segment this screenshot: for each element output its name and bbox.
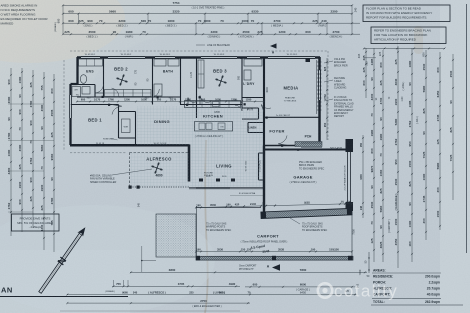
- carport dim row bottom: [195, 247, 353, 252]
- left dim connectors: [8, 104, 54, 212]
- room label BED 1: [88, 118, 102, 123]
- wir shelves: [122, 119, 131, 133]
- room label PTY: [247, 108, 254, 112]
- left dim col 3: [29, 70, 34, 228]
- ceiling ht label: [195, 134, 224, 138]
- brick pier note: [324, 58, 348, 67]
- room label PCH: [305, 135, 312, 139]
- door jambs: [102, 57, 300, 151]
- section marker A bottom: [239, 264, 280, 271]
- wall bed3 sides: [197, 58, 243, 108]
- dim col foyer right: [323, 58, 328, 140]
- bottom row 2: [66, 290, 357, 296]
- wall alfresco-living: [188, 145, 191, 182]
- storage: [259, 153, 265, 180]
- carport roof note: [241, 240, 288, 243]
- porch slab: [295, 142, 322, 147]
- dimension row 5660-3320-9330: [62, 7, 358, 15]
- wall top exterior: [77, 58, 320, 63]
- ens bath tub: [80, 75, 86, 84]
- wall labels extra: [96, 143, 247, 207]
- door ldry: [235, 104, 242, 111]
- dimension row lower widths: [62, 30, 360, 39]
- door bath: [152, 89, 160, 97]
- wall left exterior: [71, 57, 78, 145]
- door bed3: [200, 96, 209, 105]
- eave outline dashed: [64, 51, 328, 153]
- room label BATH: [163, 70, 174, 74]
- wall garage right lift door: [343, 152, 350, 203]
- walls pantry: [242, 108, 259, 119]
- wall kitchen left nib: [196, 105, 198, 119]
- wall ens wc and bed2 bottom: [77, 85, 152, 98]
- defs: [0, 0, 1, 1]
- fan alfresco: [151, 162, 163, 174]
- room label MEDIA: [284, 86, 299, 91]
- room label GARAGE: [293, 175, 312, 180]
- wall bath sides: [153, 58, 181, 105]
- room label ALFRESCO: [146, 157, 172, 162]
- right dim col 2: [370, 48, 375, 262]
- bottom row 1: [112, 280, 240, 287]
- right dim col 5: [408, 48, 413, 262]
- room label FOYER: [269, 129, 284, 134]
- dimension row room widths: [62, 19, 360, 28]
- path slab stipple: [156, 214, 196, 257]
- dimension risers: [54, 5, 352, 34]
- insulation note: [324, 96, 354, 118]
- garage right vdim: [360, 135, 364, 218]
- line of bulkhead note: [196, 44, 230, 47]
- right dim col 1: [362, 48, 367, 98]
- porch steps: [301, 143, 322, 148]
- dimension row 7754: [62, 1, 353, 10]
- watermark cotality: [318, 282, 398, 301]
- note box engineers bracing plan: [371, 27, 446, 44]
- interior rotated dims: [135, 69, 270, 92]
- room label ENS: [86, 70, 94, 74]
- carport slab edge: [196, 256, 353, 261]
- room label LDRY: [243, 82, 255, 86]
- ldry bench: [244, 59, 262, 80]
- wall media bottom / foyer top: [264, 114, 320, 117]
- 7556 label: [353, 229, 356, 235]
- garage ceiling note: [290, 181, 317, 184]
- room label LIVING: [216, 164, 232, 169]
- right dim col 6: [422, 50, 427, 240]
- room label CARPORT: [257, 234, 279, 239]
- left dim col 5: [50, 74, 55, 252]
- door ens: [95, 84, 104, 93]
- alfresco 4600: [155, 174, 162, 178]
- wall hall bottom: [180, 104, 242, 106]
- bottom faint line: [60, 310, 240, 312]
- walls linen: [248, 123, 264, 133]
- room label BED 2: [114, 67, 128, 72]
- garage side door label: [330, 147, 343, 150]
- door bed1: [112, 105, 122, 115]
- right dim col 4: [394, 46, 399, 268]
- carport top beam: [196, 206, 352, 257]
- door entry: [278, 136, 288, 146]
- carport dim row top: [195, 199, 353, 208]
- wall garage left: [263, 146, 265, 214]
- wall bottom bed1-dining: [70, 144, 190, 147]
- windows: [70, 56, 322, 118]
- ens vanity: [79, 59, 103, 66]
- fan bed3: [215, 75, 227, 87]
- kitchen island bench: [195, 122, 233, 132]
- under door label: [230, 192, 264, 195]
- room label LINEN: [249, 126, 257, 130]
- kitchen bench top: [185, 101, 241, 114]
- garage pier block: [346, 139, 354, 211]
- wall ens-bed2: [103, 58, 105, 97]
- living glass doors: [189, 187, 264, 189]
- wall media-foyer left: [263, 58, 265, 146]
- room label BED 3: [213, 69, 227, 74]
- right dim col 8: [449, 54, 454, 200]
- alfresco fan note: [90, 169, 152, 184]
- areas table: [371, 269, 463, 306]
- carport bracket note: [290, 218, 327, 232]
- section marker A top: [270, 43, 277, 54]
- right edge line: [466, 4, 468, 253]
- wall ldry bottom: [242, 97, 264, 99]
- north arrow: [36, 225, 90, 297]
- window labels: [85, 54, 298, 56]
- left dim col 2: [18, 68, 23, 232]
- bed3 robe: [198, 60, 204, 88]
- general notes text top-left: [1, 3, 49, 25]
- garage bottom wall: [261, 208, 352, 218]
- carport post note: [206, 223, 231, 232]
- bottom row 3: [66, 299, 250, 308]
- wall bath bottom: [152, 96, 180, 98]
- garage pier note: [299, 161, 324, 170]
- living vents: [199, 173, 235, 182]
- door media: [261, 105, 271, 113]
- room label KITCHEN: [203, 114, 223, 119]
- bed2 robe: [105, 90, 152, 97]
- row 3800-7800: [130, 246, 370, 278]
- right top connector row: [357, 47, 446, 65]
- door bed2: [110, 88, 119, 97]
- floor tile grid: [130, 106, 263, 187]
- alfresco outline and posts: [129, 153, 190, 189]
- garage width rows: [245, 283, 360, 295]
- eave vents box: [12, 214, 60, 231]
- pre-table vdim: [365, 252, 370, 273]
- interior door sizes: [87, 98, 238, 103]
- right dim col 7: [436, 52, 441, 230]
- note box floor plan & section: [363, 5, 450, 22]
- cladding note: [324, 77, 346, 90]
- wall right exterior media-foyer: [318, 57, 321, 146]
- door hall: [188, 98, 195, 105]
- handwritten note: [250, 244, 269, 254]
- left dim col 4: [40, 72, 45, 250]
- bath fixtures: [154, 59, 179, 96]
- ens wc fixtures: [72, 87, 90, 97]
- fan bed2: [116, 74, 128, 86]
- title floor plan cut: [0, 286, 128, 297]
- left dim col 1: [7, 68, 12, 236]
- wall porch-garage top: [264, 146, 348, 150]
- media tv recess note: [284, 97, 297, 103]
- right col extra labels: [376, 81, 419, 233]
- interior dim row: [76, 97, 265, 102]
- walls bed1 wir: [71, 105, 136, 146]
- room label DINING: [154, 119, 170, 124]
- right dim col 3: [379, 50, 384, 262]
